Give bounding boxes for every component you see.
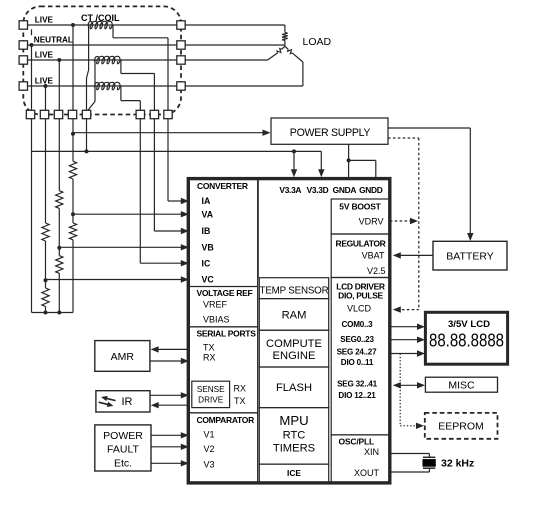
svg-text:OSC/PLL: OSC/PLL: [339, 437, 374, 447]
svg-text:VDRV: VDRV: [359, 216, 384, 226]
svg-text:IR: IR: [122, 396, 133, 408]
svg-text:LIVE: LIVE: [35, 16, 54, 25]
svg-text:COMPUTE: COMPUTE: [266, 338, 322, 350]
svg-text:SEG 24..27: SEG 24..27: [337, 347, 378, 356]
svg-text:MPU: MPU: [279, 413, 308, 428]
svg-text:VREF: VREF: [203, 300, 228, 310]
svg-text:ENGINE: ENGINE: [273, 350, 316, 362]
svg-text:FLASH: FLASH: [276, 382, 312, 394]
svg-text:VA: VA: [202, 209, 214, 219]
svg-text:RTC: RTC: [283, 430, 306, 442]
svg-text:IB: IB: [202, 226, 211, 236]
svg-text:POWER SUPPLY: POWER SUPPLY: [290, 127, 371, 139]
svg-text:LOAD: LOAD: [303, 36, 332, 48]
svg-text:NEUTRAL: NEUTRAL: [34, 36, 73, 45]
svg-text:SENSE: SENSE: [197, 385, 225, 394]
svg-text:V2: V2: [204, 444, 215, 454]
svg-text:RX: RX: [234, 383, 247, 393]
svg-text:IC: IC: [202, 258, 211, 268]
svg-text:COMPARATOR: COMPARATOR: [197, 415, 255, 425]
svg-text:VOLTAGE REF: VOLTAGE REF: [197, 288, 253, 298]
svg-text:DIO 0..11: DIO 0..11: [341, 358, 374, 367]
svg-text:EEPROM: EEPROM: [438, 421, 484, 433]
svg-text:VC: VC: [202, 275, 215, 285]
svg-text:TIMERS: TIMERS: [273, 443, 315, 455]
svg-text:VB: VB: [202, 242, 214, 252]
svg-text:DRIVE: DRIVE: [198, 395, 224, 404]
svg-text:3/5V LCD: 3/5V LCD: [448, 319, 490, 330]
svg-text:XIN: XIN: [364, 447, 379, 457]
svg-text:XOUT: XOUT: [354, 468, 380, 478]
svg-text:POWER: POWER: [103, 430, 143, 442]
svg-text:GNDA: GNDA: [333, 185, 357, 195]
svg-text:V3.3A: V3.3A: [279, 185, 301, 195]
svg-text:TEMP SENSOR: TEMP SENSOR: [260, 285, 329, 296]
svg-text:V3: V3: [204, 459, 215, 469]
svg-text:V1: V1: [204, 430, 215, 440]
svg-text:VBIAS: VBIAS: [203, 314, 230, 324]
svg-text:5V BOOST: 5V BOOST: [339, 202, 381, 212]
svg-text:REGULATOR: REGULATOR: [336, 238, 386, 248]
svg-text:DIO 12..21: DIO 12..21: [338, 391, 376, 400]
svg-text:CONVERTER: CONVERTER: [197, 181, 248, 191]
svg-text:LIVE: LIVE: [35, 77, 54, 86]
svg-text:IA: IA: [202, 196, 211, 206]
svg-text:FAULT: FAULT: [107, 444, 139, 456]
svg-text:VBAT: VBAT: [362, 251, 385, 261]
svg-text:VLCD: VLCD: [347, 304, 372, 314]
svg-text:TX: TX: [203, 343, 215, 353]
svg-text:ICE: ICE: [287, 468, 301, 478]
svg-text:COM0..3: COM0..3: [342, 320, 374, 329]
svg-text:GNDD: GNDD: [359, 185, 383, 195]
svg-text:MISC: MISC: [448, 380, 475, 392]
svg-text:V3.3D: V3.3D: [307, 185, 329, 195]
svg-text:Etc.: Etc.: [114, 458, 132, 470]
svg-text:SERIAL PORTS: SERIAL PORTS: [197, 329, 257, 339]
svg-text:TX: TX: [234, 396, 246, 406]
svg-text:V2.5: V2.5: [367, 266, 386, 276]
svg-text:SEG 32..41: SEG 32..41: [337, 380, 378, 389]
svg-text:88.88.8888: 88.88.8888: [429, 331, 504, 351]
svg-text:BATTERY: BATTERY: [446, 250, 493, 262]
svg-text:32 kHz: 32 kHz: [441, 457, 474, 469]
svg-text:DIO, PULSE: DIO, PULSE: [338, 291, 383, 301]
svg-text:AMR: AMR: [111, 351, 135, 363]
svg-text:RAM: RAM: [282, 309, 307, 321]
svg-text:LIVE: LIVE: [35, 51, 54, 60]
svg-text:CT /COIL: CT /COIL: [81, 13, 120, 23]
svg-text:SEG0..23: SEG0..23: [340, 335, 374, 344]
svg-text:RX: RX: [203, 352, 216, 362]
